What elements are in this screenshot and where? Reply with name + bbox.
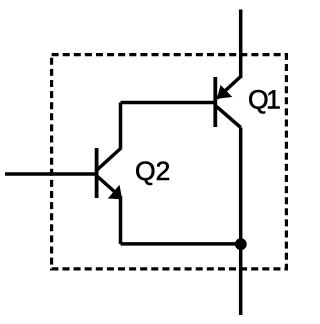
wire: Q1 collector vertical / output lead: [239, 128, 243, 316]
wire: Q2 collector diagonal: [98, 149, 121, 170]
dashed enclosure box: [52, 55, 287, 269]
wire: Q1 collector diagonal: [217, 107, 241, 128]
transistor Q1 base bar: [213, 77, 217, 127]
label Q2: [136, 161, 169, 185]
transistor Q2 emitter arrow (NPN, points outward): [108, 185, 122, 200]
label Q1: [249, 90, 279, 114]
wire: Q1 emitter diagonal: [217, 77, 241, 99]
transistor Q2 base bar: [95, 148, 99, 198]
wire: input to Q2 base (left horizontal): [5, 172, 97, 176]
wire: Q1 emitter lead (top vertical): [239, 10, 243, 79]
wire: Q2 collector vertical riser: [119, 103, 123, 150]
wire: Q2 emitter vertical drop: [119, 196, 123, 244]
wire: bottom horizontal to output node: [121, 242, 241, 246]
wire: Q1 base connection (horizontal from Q2 collector): [121, 101, 216, 105]
wire: Q2 emitter diagonal: [98, 177, 121, 198]
transistor Q1 emitter arrow (PNP, points to base): [217, 85, 233, 99]
junction node dot: [235, 238, 247, 250]
